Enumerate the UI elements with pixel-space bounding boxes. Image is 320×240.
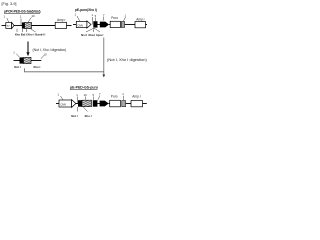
GS insert fragment (hatched) [24, 57, 32, 63]
callout tick [92, 17, 94, 25]
callout [102, 17, 105, 21]
svg-text:[Fig. 3-9]: [Fig. 3-9] [2, 2, 17, 6]
wire end [67, 25, 72, 27]
linker box (grey) [121, 22, 124, 28]
callout to promoter label [7, 18, 9, 22]
svg-text:Amp r: Amp r [132, 94, 141, 98]
site leader ticks below bottom construct [76, 107, 78, 112]
svg-text:pE-PED-GS-puro: pE-PED-GS-puro [70, 85, 98, 89]
svg-text:1: 1 [13, 50, 15, 54]
GS fragment wire [14, 60, 20, 62]
svg-text:(Not I, Xho I digestion): (Not I, Xho I digestion) [107, 57, 147, 62]
CMV promoter arrow right [76, 21, 91, 28]
svg-text:pPCR-PED-GS-SalΔNsiΔ: pPCR-PED-GS-SalΔNsiΔ [4, 9, 41, 13]
svg-text:5: 5 [95, 14, 97, 18]
linker box bottom (grey) [122, 101, 126, 107]
svg-text:1: 1 [58, 93, 60, 97]
site leader ticks below left construct [16, 29, 18, 32]
callout promoter bottom [61, 96, 63, 100]
wire to edge [146, 24, 148, 26]
leader box bottom (black) [78, 100, 82, 107]
wire [98, 24, 101, 26]
svg-text:CMV: CMV [77, 23, 83, 27]
callout fragment right [41, 56, 44, 59]
promoter arrow P1 [6, 22, 14, 28]
callout GS bottom [85, 97, 87, 100]
svg-text:1: 1 [76, 93, 78, 97]
merge connector elbow [25, 38, 104, 72]
svg-text:Not I: Not I [14, 65, 21, 69]
fragment wire right [31, 60, 41, 62]
wire [126, 103, 131, 105]
svg-text:1: 1 [125, 14, 127, 18]
svg-text:Not I: Not I [71, 114, 78, 118]
svg-text:Amp r: Amp r [57, 18, 66, 22]
svg-text:Hpa I: Hpa I [96, 33, 103, 37]
callout tick node 1 [20, 19, 22, 26]
callout tick bottom [76, 97, 78, 104]
svg-text:1: 1 [20, 14, 22, 18]
wire bottom construct [56, 103, 59, 105]
svg-text:CMV: CMV [60, 102, 66, 106]
polyA solid arrow [100, 22, 109, 28]
svg-text:Puro: Puro [111, 16, 118, 20]
merge arrow head down [103, 72, 105, 75]
callout [95, 18, 97, 22]
leader box (black) [93, 21, 97, 27]
callout promoter [77, 16, 80, 21]
svg-text:Xho I: Xho I [27, 33, 34, 37]
wire [109, 103, 111, 105]
svg-text:pE-puro(Xho I): pE-puro(Xho I) [75, 8, 97, 12]
wire [14, 25, 22, 27]
wire [125, 24, 135, 26]
wire [32, 25, 56, 27]
wire left construct baseline [2, 25, 7, 27]
svg-text:7: 7 [103, 13, 105, 17]
wire [97, 103, 100, 105]
Amp box left construct [55, 22, 66, 28]
Puro box bottom [110, 100, 121, 107]
Amp box right construct [135, 22, 146, 28]
svg-text:1: 1 [4, 14, 6, 18]
callout fragment left [16, 54, 19, 57]
wire to edge bottom [143, 103, 147, 105]
svg-text:10: 10 [32, 14, 36, 18]
second black box bottom [93, 100, 98, 107]
MCS site fan below right construct [86, 28, 94, 32]
svg-text:(Not I, Xho I digestion): (Not I, Xho I digestion) [33, 48, 67, 52]
leader box (black) fragment [20, 57, 24, 63]
svg-text:1: 1 [92, 13, 94, 17]
svg-text:Xho I: Xho I [33, 65, 40, 69]
svg-text:Puro: Puro [111, 94, 118, 98]
callout to GS label [28, 17, 32, 22]
GS insert bottom (hatched) [82, 100, 92, 107]
svg-text:Xho I: Xho I [85, 114, 92, 118]
wire right construct [73, 24, 77, 26]
wire [75, 103, 78, 105]
callout polyA bottom [98, 96, 100, 100]
GS insert box (hatched) [25, 22, 32, 28]
Amp box bottom [131, 101, 143, 107]
svg-text:5: 5 [93, 93, 95, 97]
svg-text:1: 1 [122, 92, 124, 96]
svg-text:7: 7 [99, 92, 101, 96]
svg-text:10: 10 [44, 52, 48, 56]
svg-text:1: 1 [75, 13, 77, 17]
leader box L1 (black) [22, 22, 25, 28]
svg-text:BamH I: BamH I [35, 33, 45, 37]
digestion down arrow left [27, 42, 29, 54]
CMV promoter arrow bottom [59, 100, 76, 108]
svg-text:10: 10 [84, 93, 88, 97]
wire [109, 24, 111, 26]
svg-text:Xba I: Xba I [88, 33, 95, 37]
svg-text:Nsi I: Nsi I [81, 33, 87, 37]
Puro box [110, 21, 120, 27]
polyA solid arrow bottom [100, 101, 109, 107]
svg-text:Amp r: Amp r [136, 17, 145, 21]
